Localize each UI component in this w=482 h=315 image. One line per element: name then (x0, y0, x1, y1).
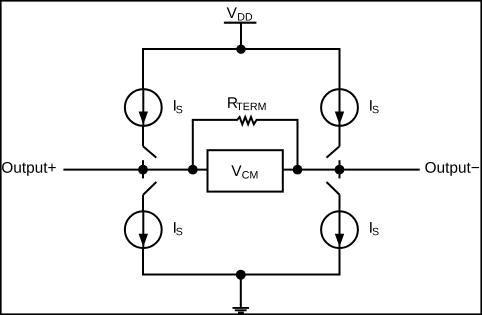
switch blade bottom-right (327, 182, 340, 195)
wire: below top-right current source (339, 126, 341, 146)
wire: below top-left current source (142, 126, 144, 146)
node: loop left dot (188, 165, 198, 175)
node: loop right dot (293, 165, 303, 175)
wire: main rail left segment (63, 169, 207, 171)
resistor RTERM with loop top wires (192, 117, 299, 124)
voltage source VCM box (208, 150, 283, 191)
wire: top rail (142, 48, 341, 50)
current source IS top-right (321, 89, 358, 126)
wire: RTERM loop right vertical (297, 120, 299, 170)
label IS bottom-left (174, 222, 182, 235)
wire: bottom-right branch to bottom rail (339, 248, 341, 275)
current source IS bottom-left (125, 211, 162, 248)
ground (233, 308, 250, 313)
label IS top-right (370, 100, 379, 113)
wire: main rail right segment (283, 169, 420, 171)
wire: to bottom-left current source (142, 195, 144, 212)
switch blade top-right (327, 146, 340, 157)
current source IS top-left (125, 89, 162, 126)
wire: RTERM loop left vertical (192, 120, 194, 170)
label VCM (231, 165, 257, 178)
wire: to bottom-right current source (339, 195, 341, 212)
wire: left branch from top rail to current source (142, 48, 144, 90)
switch contact stub top-right (339, 160, 341, 169)
node: ground junction dot (236, 270, 246, 280)
switch contact stub bottom-right (339, 170, 341, 179)
label RTERM (228, 97, 265, 110)
switch contact stub top-left (142, 160, 144, 169)
switch blade bottom-left (143, 182, 156, 195)
label IS top-left (174, 100, 182, 113)
node: right rail dot (335, 165, 345, 175)
current source IS bottom-right (321, 211, 358, 248)
node: top junction dot (236, 45, 245, 54)
wire: bottom rail (142, 274, 341, 276)
label Output+ (2, 162, 56, 176)
wire: VDD stub down to top rail (240, 23, 242, 49)
wire: ground stub (240, 275, 242, 308)
switch contact stub bottom-left (142, 170, 144, 179)
wire: bottom-left branch to bottom rail (142, 248, 144, 275)
supply VDD bar (224, 22, 257, 24)
label VDD (227, 7, 252, 20)
node: left rail dot (138, 165, 148, 175)
switch blade top-left (143, 146, 156, 157)
label IS bottom-right (370, 222, 379, 235)
label Output- (425, 162, 479, 176)
wire: right branch from top rail to current source (339, 48, 341, 90)
